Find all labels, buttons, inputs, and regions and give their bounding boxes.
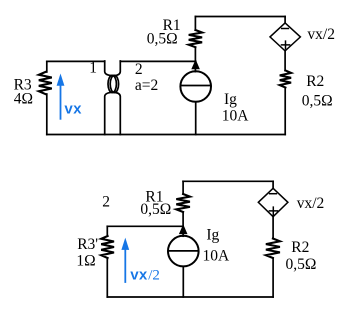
- svg-text:vx/2: vx/2: [307, 26, 335, 43]
- resistor R2: [280, 71, 291, 88]
- svg-text:10A: 10A: [222, 108, 250, 125]
- wire: top rail R1 to dependent source (bottom circuit): [183, 180, 273, 182]
- transformer T coil ring left: [108, 75, 116, 92]
- svg-text:/2: /2: [148, 267, 160, 283]
- wire: left branch bottom segment: [46, 94, 48, 135]
- current source Ig circle: [180, 71, 211, 102]
- wire: R1 branch top segment: [194, 17, 196, 31]
- svg-text:R2: R2: [306, 73, 324, 90]
- minus sign of dependent source: [282, 28, 289, 30]
- wire: R1 branch top segment: [182, 181, 184, 194]
- svg-text:4Ω: 4Ω: [14, 90, 33, 107]
- wire: left loop top (node 1 top): [47, 60, 105, 62]
- current source Ig circle (bottom): [168, 236, 199, 267]
- resistor R3: [39, 72, 52, 94]
- plus sign of dependent source: [282, 41, 290, 49]
- svg-text:R3': R3': [77, 236, 98, 253]
- wire: dependent source top stub (bottom): [272, 181, 274, 188]
- minus sign of dependent source (bottom): [270, 193, 277, 195]
- current source Ig arrow (bottom): [179, 224, 188, 234]
- svg-text:vx: vx: [64, 103, 82, 119]
- svg-text:1: 1: [89, 60, 97, 77]
- resistor R2 (bottom): [266, 239, 280, 259]
- dependent source vx/2 diamond: [270, 23, 300, 51]
- wire: R2 bottom lead (bottom): [272, 258, 274, 297]
- resistor R3': [101, 236, 114, 258]
- wire: dependent source to R2 (bottom): [272, 217, 274, 239]
- transformer T coil ring right: [110, 75, 118, 92]
- wire: current source bottom lead (bottom): [182, 266, 184, 297]
- svg-text:vx: vx: [130, 268, 148, 284]
- dependent source vx/2 diamond (bottom): [258, 188, 288, 216]
- wire: node 2 to current source top: [120, 60, 195, 62]
- wire: R1 bottom to source node: [182, 212, 184, 236]
- resistor R1 (bottom): [176, 194, 190, 212]
- wire: R2 bottom lead: [284, 88, 286, 135]
- current source Ig chord (bottom): [168, 250, 198, 252]
- wire: left branch top segment: [46, 61, 48, 72]
- svg-text:0,5Ω: 0,5Ω: [140, 201, 171, 218]
- resistor R1: [189, 30, 202, 47]
- transformer T primary bottom lead: [105, 92, 113, 134]
- wire: dependent source to R2: [284, 51, 286, 71]
- svg-text:a=2: a=2: [135, 77, 158, 94]
- current source Ig arrow: [191, 59, 200, 69]
- plus sign of dependent source (bottom): [269, 207, 277, 215]
- wire: dependent source top stub: [284, 17, 286, 23]
- wire: bottom rail of bottom circuit: [107, 296, 273, 298]
- svg-text:0,5Ω: 0,5Ω: [302, 93, 333, 110]
- svg-text:10A: 10A: [203, 248, 231, 265]
- wire: left branch bottom segment: [106, 258, 108, 297]
- wire: current source bottom lead: [195, 102, 197, 135]
- transformer T secondary top lead: [114, 61, 120, 76]
- svg-text:Ig: Ig: [224, 91, 237, 108]
- wire: R1 bottom to source node: [194, 47, 196, 71]
- svg-text:vx/2: vx/2: [297, 195, 325, 212]
- svg-text:1Ω: 1Ω: [76, 253, 95, 270]
- arrow vx/2 (blue): [124, 250, 126, 283]
- wire: bottom rail of top circuit: [47, 134, 285, 136]
- wire: left branch top segment: [106, 226, 108, 236]
- transformer T primary top lead: [105, 61, 113, 76]
- svg-text:2: 2: [135, 61, 143, 78]
- wire: left horizontal to source node: [107, 225, 183, 227]
- current source Ig chord: [181, 85, 211, 87]
- svg-text:Ig: Ig: [206, 227, 219, 244]
- svg-text:R2: R2: [291, 239, 309, 256]
- svg-text:0,5Ω: 0,5Ω: [286, 256, 317, 273]
- wire: top rail R1 to dependent source: [195, 16, 285, 18]
- svg-text:0,5Ω: 0,5Ω: [147, 31, 178, 48]
- arrow vx (blue): [60, 84, 62, 119]
- transformer T secondary bottom lead: [114, 92, 120, 134]
- svg-text:2: 2: [102, 194, 110, 211]
